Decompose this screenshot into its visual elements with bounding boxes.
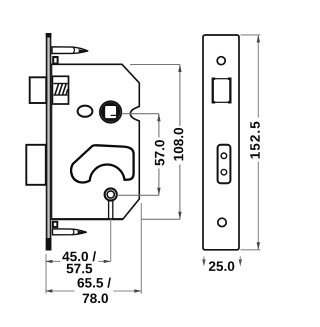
key slot plate: [218, 145, 231, 183]
leader case bottom: [141, 218, 180, 220]
latch opening: [212, 78, 232, 104]
dimension line 45.0/57.5: [45, 260, 110, 263]
leader case top: [130, 64, 180, 66]
text 152.5: [250, 122, 260, 159]
small lug below case bottom: [53, 222, 57, 227]
bottom screw hole: [218, 218, 226, 226]
dimension line 152.5: [257, 35, 260, 250]
deadbolt head outside: [26, 145, 46, 185]
extension line faceplate front: [45, 254, 47, 294]
leader plate bottom: [241, 249, 261, 251]
oval hole: [78, 106, 93, 117]
text 45.0/57.5: [62, 251, 96, 261]
lock case outline: [52, 64, 140, 219]
latch bolt head outside: [30, 77, 47, 103]
dimension line 57.0: [157, 114, 160, 196]
spindle follower: [100, 101, 121, 122]
top screw hole: [217, 57, 225, 65]
text 108.0: [174, 128, 184, 161]
text 25.0: [209, 261, 234, 271]
extension lines 25.0: [202, 257, 242, 267]
extension line case back: [140, 203, 142, 294]
latch bolt point top: [52, 47, 88, 54]
dimension line 108.0: [178, 65, 181, 220]
faceplate bar: [46, 33, 52, 251]
extension line keyhole centre vertical: [110, 219, 112, 261]
leader follower centre: [122, 113, 159, 115]
latch bolt point bottom: [53, 229, 87, 235]
latch spring housing: [52, 76, 68, 104]
keyhole pin: [105, 188, 117, 219]
forend plate outline: [203, 35, 239, 250]
text 65.5/78.0: [78, 278, 111, 288]
leader keyhole centre: [117, 194, 159, 196]
small lug above case top: [53, 57, 57, 64]
dimension line 65.5/78.0: [45, 289, 141, 292]
lever kidney cutout: [71, 145, 134, 182]
leader plate top: [241, 34, 261, 36]
text 57.0: [155, 140, 165, 166]
case bottom edge thick: [52, 218, 123, 220]
